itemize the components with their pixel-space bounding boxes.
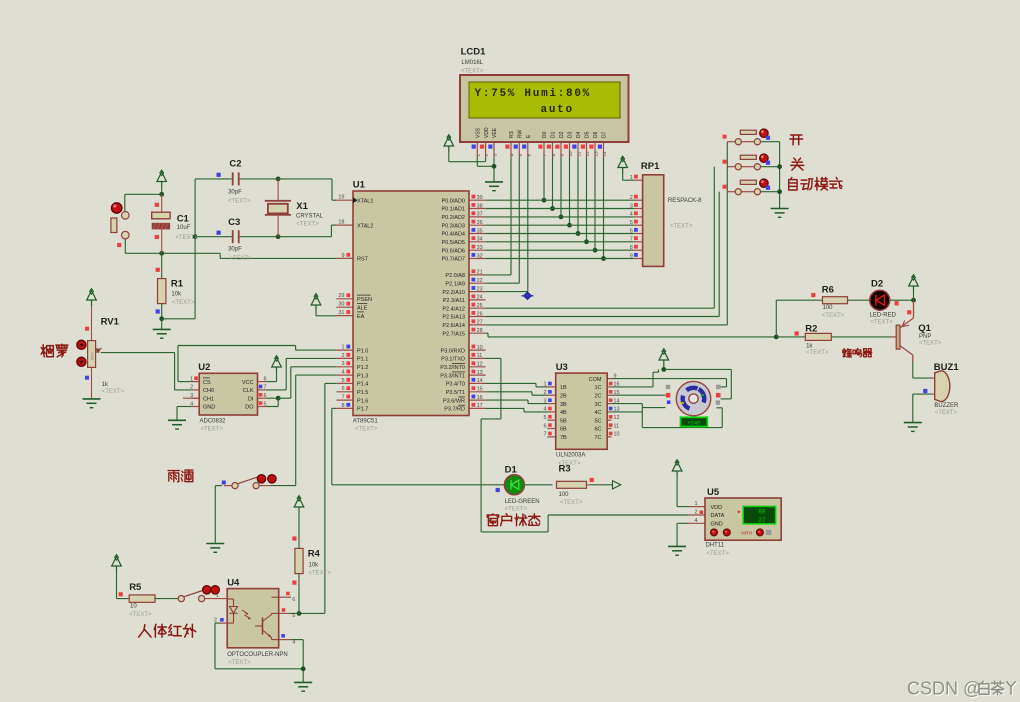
svg-text:4: 4 bbox=[694, 518, 697, 524]
svg-text:P2.3/A11: P2.3/A11 bbox=[443, 298, 465, 304]
svg-text:C3: C3 bbox=[228, 217, 240, 228]
svg-text:15: 15 bbox=[614, 390, 620, 396]
svg-text:1C: 1C bbox=[594, 385, 601, 391]
svg-text:D1: D1 bbox=[505, 465, 518, 476]
svg-text:XTAL1: XTAL1 bbox=[357, 198, 373, 204]
svg-text:13: 13 bbox=[594, 151, 599, 157]
svg-text:30: 30 bbox=[338, 302, 344, 308]
svg-text:10: 10 bbox=[614, 432, 620, 438]
svg-text:<TEXT>: <TEXT> bbox=[670, 224, 693, 230]
svg-text:EA: EA bbox=[357, 314, 365, 320]
svg-text:P2.1/A9: P2.1/A9 bbox=[445, 281, 465, 287]
svg-text:P0.2/AD2: P0.2/AD2 bbox=[441, 215, 465, 221]
svg-text:ULN2003A: ULN2003A bbox=[556, 453, 585, 459]
svg-text:2: 2 bbox=[341, 353, 344, 359]
svg-text:10k: 10k bbox=[309, 563, 320, 569]
svg-text:D7: D7 bbox=[602, 131, 608, 138]
svg-text:1: 1 bbox=[543, 382, 546, 388]
svg-text:U2: U2 bbox=[198, 362, 210, 373]
svg-text:P3.4/T0: P3.4/T0 bbox=[446, 382, 465, 388]
svg-text:36: 36 bbox=[477, 220, 483, 226]
svg-text:C1: C1 bbox=[177, 214, 190, 225]
svg-text:LED-GREEN: LED-GREEN bbox=[505, 499, 540, 505]
svg-text:16: 16 bbox=[614, 382, 620, 388]
svg-text:P1.2: P1.2 bbox=[357, 365, 368, 371]
svg-text:<TEXT>: <TEXT> bbox=[505, 507, 528, 513]
svg-text:9: 9 bbox=[614, 373, 617, 379]
svg-text:DI: DI bbox=[248, 396, 254, 402]
svg-text:34: 34 bbox=[477, 237, 483, 243]
svg-text:4: 4 bbox=[292, 640, 295, 646]
svg-text:P1.1: P1.1 bbox=[357, 357, 368, 363]
svg-text:14: 14 bbox=[614, 398, 620, 404]
svg-text:14: 14 bbox=[477, 378, 483, 384]
svg-text:25: 25 bbox=[477, 303, 483, 309]
svg-text:P0.1/AD1: P0.1/AD1 bbox=[441, 207, 465, 213]
svg-text:<TEXT>: <TEXT> bbox=[461, 68, 484, 74]
svg-text:P3.0/RXD: P3.0/RXD bbox=[441, 348, 465, 354]
svg-text:6: 6 bbox=[341, 386, 344, 392]
svg-text:12: 12 bbox=[477, 362, 483, 368]
svg-text:29: 29 bbox=[338, 293, 344, 299]
svg-text:<TEXT>: <TEXT> bbox=[228, 199, 251, 205]
svg-text:35: 35 bbox=[477, 228, 483, 234]
svg-text:LED-RED: LED-RED bbox=[870, 312, 897, 318]
svg-text:P1.0: P1.0 bbox=[357, 348, 368, 354]
svg-text:1: 1 bbox=[190, 376, 193, 382]
svg-text:P0.4/AD4: P0.4/AD4 bbox=[441, 232, 465, 238]
svg-text:30pF: 30pF bbox=[228, 190, 242, 196]
svg-text:11: 11 bbox=[477, 353, 483, 359]
svg-text:26: 26 bbox=[477, 311, 483, 317]
svg-text:12: 12 bbox=[614, 415, 620, 421]
svg-text:5: 5 bbox=[341, 378, 344, 384]
svg-text:4: 4 bbox=[341, 370, 344, 376]
svg-text:D5: D5 bbox=[585, 131, 591, 138]
svg-text:RESPACK-8: RESPACK-8 bbox=[668, 198, 702, 204]
svg-text:<TEXT>: <TEXT> bbox=[919, 341, 942, 347]
svg-text:4: 4 bbox=[510, 154, 515, 157]
svg-text:RS: RS bbox=[509, 130, 515, 138]
svg-text:<TEXT>: <TEXT> bbox=[806, 350, 829, 356]
svg-text:CH1: CH1 bbox=[203, 396, 214, 402]
svg-text:GND: GND bbox=[203, 405, 215, 411]
svg-text:<TEXT>: <TEXT> bbox=[228, 660, 251, 666]
svg-text:5: 5 bbox=[543, 415, 546, 421]
svg-text:14: 14 bbox=[602, 151, 607, 157]
svg-text:R1: R1 bbox=[171, 279, 184, 290]
svg-text:CLK: CLK bbox=[243, 388, 254, 394]
svg-text:<TEXT>: <TEXT> bbox=[296, 222, 319, 228]
svg-text:P3.2/INT0: P3.2/INT0 bbox=[440, 365, 465, 371]
svg-text:R6: R6 bbox=[822, 285, 834, 296]
svg-text:%RH: %RH bbox=[741, 531, 752, 536]
svg-text:17: 17 bbox=[477, 403, 483, 409]
svg-text:VDD: VDD bbox=[711, 505, 723, 511]
svg-text:P1.3: P1.3 bbox=[357, 373, 368, 379]
svg-text:OPTOCOUPLER-NPN: OPTOCOUPLER-NPN bbox=[227, 652, 288, 658]
svg-text:6B: 6B bbox=[560, 427, 567, 433]
svg-text:7B: 7B bbox=[560, 435, 567, 441]
svg-text:7: 7 bbox=[630, 237, 633, 243]
svg-text:PSEN: PSEN bbox=[357, 297, 372, 303]
svg-text:P2.4/A12: P2.4/A12 bbox=[442, 306, 465, 312]
svg-text:<TEXT>: <TEXT> bbox=[355, 427, 378, 433]
svg-text:LM016L: LM016L bbox=[461, 60, 483, 66]
svg-text:ADC0832: ADC0832 bbox=[200, 419, 227, 425]
svg-text:9: 9 bbox=[630, 253, 633, 259]
svg-text:P2.5/A13: P2.5/A13 bbox=[442, 315, 465, 321]
svg-text:5B: 5B bbox=[560, 418, 567, 424]
svg-text:P0.3/AD3: P0.3/AD3 bbox=[441, 223, 465, 229]
svg-text:2C: 2C bbox=[594, 393, 601, 399]
svg-text:21: 21 bbox=[477, 270, 483, 276]
svg-text:<TEXT>: <TEXT> bbox=[129, 612, 152, 618]
svg-text:10: 10 bbox=[130, 604, 137, 610]
svg-text:7: 7 bbox=[341, 395, 344, 401]
svg-text:P3.6/WR: P3.6/WR bbox=[443, 398, 465, 404]
svg-text:D0: D0 bbox=[542, 131, 548, 138]
svg-text:P3.5/T1: P3.5/T1 bbox=[446, 390, 465, 396]
svg-text:CRYSTAL: CRYSTAL bbox=[296, 214, 324, 220]
svg-text:5C: 5C bbox=[594, 418, 601, 424]
svg-text:6: 6 bbox=[543, 423, 546, 429]
svg-text:DO: DO bbox=[245, 405, 254, 411]
svg-text:50%: 50% bbox=[91, 352, 95, 360]
svg-text:6: 6 bbox=[526, 154, 531, 157]
svg-text:Q1: Q1 bbox=[918, 323, 931, 334]
svg-text:D1: D1 bbox=[551, 131, 557, 138]
svg-text:1: 1 bbox=[694, 501, 697, 507]
svg-text:2: 2 bbox=[630, 195, 633, 201]
svg-text:C2: C2 bbox=[229, 159, 241, 170]
svg-text:<TEXT>: <TEXT> bbox=[102, 389, 125, 395]
svg-text:R5: R5 bbox=[129, 582, 142, 593]
svg-text:D4: D4 bbox=[576, 131, 582, 138]
svg-text:1k: 1k bbox=[102, 382, 109, 388]
svg-text:P1.6: P1.6 bbox=[357, 398, 368, 404]
svg-text:37: 37 bbox=[477, 212, 483, 218]
svg-text:ALE: ALE bbox=[357, 305, 368, 311]
svg-text:U5: U5 bbox=[707, 487, 720, 498]
svg-text:P3.3/INT1: P3.3/INT1 bbox=[440, 373, 465, 379]
svg-text:Y:75% Humi:80%: Y:75% Humi:80% bbox=[475, 88, 592, 100]
svg-text:12: 12 bbox=[585, 151, 590, 157]
svg-text:<TEXT>: <TEXT> bbox=[935, 410, 958, 416]
svg-text:3: 3 bbox=[493, 154, 498, 157]
svg-text:P2.6/A14: P2.6/A14 bbox=[442, 323, 465, 329]
svg-text:P3.7/RD: P3.7/RD bbox=[444, 407, 465, 413]
svg-text:2: 2 bbox=[484, 154, 489, 157]
svg-text:X1: X1 bbox=[296, 201, 308, 212]
svg-text:7: 7 bbox=[543, 432, 546, 438]
svg-text:11: 11 bbox=[614, 423, 620, 429]
svg-text:P0.7/AD7: P0.7/AD7 bbox=[441, 257, 465, 263]
svg-text:27: 27 bbox=[758, 517, 766, 524]
svg-text:<TEXT>: <TEXT> bbox=[229, 256, 252, 262]
svg-text:39: 39 bbox=[477, 195, 483, 201]
svg-text:30pF: 30pF bbox=[228, 247, 242, 253]
svg-text:8: 8 bbox=[341, 403, 344, 409]
svg-text:P2.2/A10: P2.2/A10 bbox=[442, 290, 465, 296]
svg-text:2: 2 bbox=[543, 390, 546, 396]
svg-text:7: 7 bbox=[543, 154, 548, 157]
svg-text:1: 1 bbox=[630, 175, 633, 181]
svg-text:1B: 1B bbox=[560, 385, 567, 391]
svg-text:3: 3 bbox=[543, 398, 546, 404]
svg-text:7: 7 bbox=[264, 385, 267, 391]
svg-text:RV1: RV1 bbox=[101, 317, 120, 328]
svg-text:27: 27 bbox=[477, 320, 483, 326]
svg-text:<TEXT>: <TEXT> bbox=[201, 427, 224, 433]
svg-text:RW: RW bbox=[518, 129, 524, 138]
svg-text:1k: 1k bbox=[806, 343, 813, 349]
svg-text:4C: 4C bbox=[594, 410, 601, 416]
svg-text:2: 2 bbox=[214, 618, 217, 624]
svg-text:<TEXT>: <TEXT> bbox=[309, 571, 332, 577]
svg-text:1: 1 bbox=[341, 345, 344, 351]
svg-text:7C: 7C bbox=[594, 435, 601, 441]
svg-text:<TEXT>: <TEXT> bbox=[870, 320, 893, 326]
svg-text:P1.5: P1.5 bbox=[357, 390, 368, 396]
svg-text:D6: D6 bbox=[593, 131, 599, 138]
svg-text:RP1: RP1 bbox=[641, 161, 660, 172]
svg-text:10uF: 10uF bbox=[177, 225, 191, 231]
svg-text:BUZZER: BUZZER bbox=[934, 403, 959, 409]
svg-text:VDD: VDD bbox=[484, 127, 490, 138]
svg-text:RST: RST bbox=[357, 257, 369, 263]
svg-text:28: 28 bbox=[477, 328, 483, 334]
svg-text:5: 5 bbox=[292, 613, 295, 619]
svg-text:100: 100 bbox=[559, 492, 570, 498]
svg-text:3: 3 bbox=[341, 361, 344, 367]
svg-text:<TEXT>: <TEXT> bbox=[707, 551, 730, 557]
svg-text:4B: 4B bbox=[560, 410, 567, 416]
svg-text:<TEXT>: <TEXT> bbox=[172, 300, 195, 306]
svg-text:+240: +240 bbox=[687, 421, 700, 427]
svg-text:P0.6/AD6: P0.6/AD6 bbox=[441, 248, 465, 254]
svg-text:33: 33 bbox=[477, 245, 483, 251]
svg-text:P1.4: P1.4 bbox=[357, 382, 368, 388]
svg-text:CSDN @: CSDN @ bbox=[907, 679, 981, 699]
svg-text:6: 6 bbox=[292, 597, 295, 603]
svg-text:38: 38 bbox=[477, 203, 483, 209]
svg-text:R4: R4 bbox=[308, 549, 321, 560]
svg-text:80: 80 bbox=[758, 509, 766, 516]
svg-text:P2.0/A8: P2.0/A8 bbox=[445, 273, 465, 279]
svg-text:11: 11 bbox=[577, 151, 582, 156]
svg-text:P0.0/AD0: P0.0/AD0 bbox=[441, 198, 465, 204]
svg-text:DHT11: DHT11 bbox=[706, 543, 725, 549]
svg-text:LCD1: LCD1 bbox=[461, 47, 487, 58]
svg-text:8: 8 bbox=[551, 154, 556, 157]
svg-text:CS: CS bbox=[203, 380, 211, 386]
svg-text:32: 32 bbox=[477, 253, 483, 259]
svg-text:9: 9 bbox=[341, 253, 344, 259]
svg-text:<TEXT>: <TEXT> bbox=[175, 235, 198, 241]
svg-text:P0.5/AD5: P0.5/AD5 bbox=[441, 240, 465, 246]
svg-text:23: 23 bbox=[477, 286, 483, 292]
svg-text:U3: U3 bbox=[556, 362, 568, 373]
svg-text:10: 10 bbox=[477, 345, 483, 351]
svg-text:U4: U4 bbox=[227, 578, 240, 589]
svg-text:1: 1 bbox=[476, 154, 481, 157]
svg-text:6: 6 bbox=[630, 228, 633, 234]
svg-text:13: 13 bbox=[614, 407, 620, 413]
svg-text:D2: D2 bbox=[871, 279, 883, 290]
svg-text:<TEXT>: <TEXT> bbox=[560, 500, 583, 506]
svg-text:3: 3 bbox=[630, 203, 633, 209]
svg-text:VEE: VEE bbox=[492, 127, 498, 138]
svg-text:4: 4 bbox=[630, 212, 633, 218]
svg-text:DATA: DATA bbox=[711, 513, 725, 519]
svg-text:2B: 2B bbox=[560, 393, 567, 399]
svg-text:P3.1/TXD: P3.1/TXD bbox=[441, 357, 465, 363]
svg-text:3B: 3B bbox=[560, 402, 567, 408]
svg-text:R3: R3 bbox=[559, 464, 571, 475]
svg-text:<TEXT>: <TEXT> bbox=[822, 313, 845, 319]
svg-text:5: 5 bbox=[630, 220, 633, 226]
svg-text:CH0: CH0 bbox=[203, 388, 214, 394]
svg-text:4: 4 bbox=[190, 401, 193, 407]
svg-text:D3: D3 bbox=[568, 131, 574, 138]
svg-text:22: 22 bbox=[477, 278, 483, 284]
svg-text:10k: 10k bbox=[171, 292, 182, 298]
svg-text:PNP: PNP bbox=[919, 334, 931, 340]
svg-text:15: 15 bbox=[477, 387, 483, 393]
svg-text:COM: COM bbox=[589, 377, 602, 383]
svg-text:4: 4 bbox=[543, 407, 546, 413]
svg-text:31: 31 bbox=[338, 310, 344, 316]
svg-text:24: 24 bbox=[477, 295, 483, 301]
svg-text:6: 6 bbox=[264, 393, 267, 399]
svg-text:5: 5 bbox=[518, 154, 523, 157]
svg-text:VCC: VCC bbox=[242, 380, 254, 386]
svg-text:3: 3 bbox=[190, 393, 193, 399]
svg-text:VSS: VSS bbox=[476, 127, 482, 138]
svg-text:3C: 3C bbox=[594, 402, 601, 408]
svg-text:19: 19 bbox=[338, 195, 344, 201]
svg-text:5: 5 bbox=[264, 401, 267, 407]
svg-text:8: 8 bbox=[630, 245, 633, 251]
svg-text:8: 8 bbox=[264, 376, 267, 382]
svg-text:BUZ1: BUZ1 bbox=[934, 362, 960, 373]
svg-text:auto: auto bbox=[541, 104, 574, 116]
svg-text:6C: 6C bbox=[594, 427, 601, 433]
svg-text:XTAL2: XTAL2 bbox=[357, 223, 373, 229]
svg-text:2: 2 bbox=[694, 510, 697, 516]
svg-text:P1.7: P1.7 bbox=[357, 407, 368, 413]
svg-text:AT89C51: AT89C51 bbox=[353, 419, 379, 425]
svg-text:100: 100 bbox=[823, 305, 834, 311]
svg-text:U1: U1 bbox=[353, 180, 366, 191]
svg-text:R2: R2 bbox=[805, 324, 817, 335]
svg-text:18: 18 bbox=[338, 220, 344, 226]
svg-text:10: 10 bbox=[568, 151, 573, 157]
svg-text:13: 13 bbox=[477, 370, 483, 376]
svg-text:D2: D2 bbox=[559, 131, 565, 138]
svg-text:16: 16 bbox=[477, 395, 483, 401]
svg-text:2: 2 bbox=[190, 385, 193, 391]
svg-text:GND: GND bbox=[711, 522, 723, 528]
svg-text:9: 9 bbox=[560, 154, 565, 157]
svg-text:P2.7/A15: P2.7/A15 bbox=[442, 331, 465, 337]
